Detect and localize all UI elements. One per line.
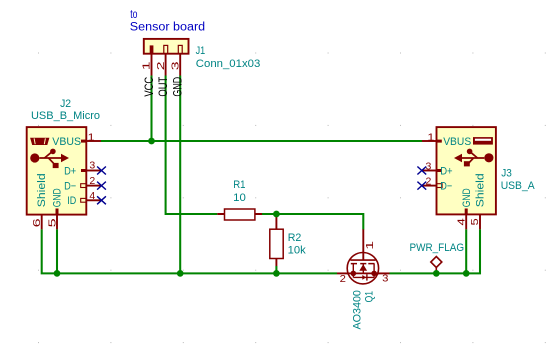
svg-text:10: 10 [233,192,246,204]
J3 pin 4 GND [455,188,472,229]
J2 USB trident icon [30,149,69,169]
svg-text:1: 1 [141,61,153,70]
wire bottom rail right from Q1.3 to J3.5 [390,229,481,273]
resistor R1 [217,209,262,220]
svg-text:2: 2 [155,61,167,70]
J2 USB plug icon [30,138,49,145]
svg-text:2: 2 [426,176,432,188]
no-connect X on J3 D- [417,182,426,190]
J2 pin 6 Shield [31,173,48,229]
svg-text:D−: D− [64,181,76,193]
svg-text:1: 1 [427,131,434,143]
text note: to Sensor board [130,9,205,34]
svg-text:R2: R2 [288,232,302,244]
resistor R2 [270,215,283,266]
svg-text:GND: GND [173,77,185,97]
svg-text:Q1: Q1 [364,291,376,302]
svg-text:VCC: VCC [144,77,156,97]
wire R1 right to Q1 gate [262,214,363,230]
Q1 pin 1 gate [363,229,376,260]
svg-text:2: 2 [89,175,95,187]
svg-text:AO3400: AO3400 [351,290,363,329]
junction at J2.5/rail [54,270,61,277]
J2 pin 5 GND [46,188,63,229]
J1 reference and value labels [196,45,261,70]
wire from J3.4 to bottom rail [465,229,467,273]
J2 pin 2 D- [64,175,101,193]
svg-text:Shield: Shield [475,173,487,207]
wire bottom rail left from J2.6 to Q1.2 [42,229,337,273]
wire GND from J1.3 to bottom rail [179,76,181,274]
connector J1 body [144,39,189,54]
svg-text:3: 3 [169,61,181,70]
J3 pin 5 Shield [469,173,486,229]
J3 USB socket icon [473,137,493,145]
connector J3 body [437,127,496,215]
J2 pin 3 D+ [64,159,101,177]
svg-text:Conn_01x03: Conn_01x03 [196,58,260,70]
svg-text:4: 4 [455,218,467,225]
svg-text:3: 3 [89,159,95,171]
J1 pin 2 [155,54,167,76]
svg-text:VBUS: VBUS [52,136,81,148]
J1 pin 3 [169,54,181,76]
svg-text:3: 3 [426,160,432,172]
svg-text:10k: 10k [288,244,307,256]
svg-text:R1: R1 [233,179,245,191]
svg-text:4: 4 [89,190,95,202]
J1 pin 1 [141,54,153,76]
svg-text:USB_B_Micro: USB_B_Micro [31,110,100,122]
J3 pin 3 D+ [422,160,453,177]
svg-text:D−: D− [440,181,452,193]
J2 pin 1 VBUS [52,131,101,148]
svg-text:OUT: OUT [158,77,170,97]
Q1 pin 2 source [337,273,348,285]
wire R2 bottom to rail [275,266,277,273]
J3 reference and value labels [501,168,536,192]
junction at VCC/VBUS [148,138,155,145]
svg-text:Sensor board: Sensor board [130,22,205,34]
svg-text:Shield: Shield [36,173,48,207]
junction at PWR_FLAG/rail [433,270,440,277]
J3 USB trident icon [454,149,494,167]
svg-text:J1: J1 [196,45,206,57]
svg-text:GND: GND [52,188,64,207]
junction at J3.4/rail [463,270,470,277]
junction at GND/rail [177,270,184,277]
svg-text:1: 1 [88,131,95,143]
svg-text:J2: J2 [60,98,71,110]
svg-text:5: 5 [46,218,58,227]
J2 reference and value labels [31,98,100,122]
svg-text:ID: ID [67,195,76,207]
junction at R1/R2 [273,211,280,218]
svg-text:VBUS: VBUS [443,136,471,148]
svg-text:2: 2 [340,273,346,285]
no-connect X on J2 D- [97,182,106,190]
Q1 pin 3 drain [378,273,390,285]
R2 reference and value labels [288,232,307,256]
svg-text:6: 6 [31,218,43,227]
svg-text:5: 5 [469,218,481,225]
no-connect X on J3 D+ [417,167,426,175]
connector J2 body [27,127,87,215]
svg-text:GND: GND [461,188,473,207]
wire from J2.5 to bottom rail [56,229,58,273]
transistor Q1 body [347,253,379,284]
J3 pin 2 D- [422,176,452,193]
svg-text:D+: D+ [440,165,452,177]
svg-text:J3: J3 [501,168,512,180]
Q1 reference and value labels [351,290,375,329]
no-connect X on J2 D+ [97,167,106,175]
J3 pin 1 VBUS [422,131,471,148]
wire VBUS horizontal J2.1 to J3.1 [101,140,422,142]
svg-text:3: 3 [382,273,388,285]
svg-text:1: 1 [364,241,376,250]
R1 reference and value labels [233,179,246,204]
svg-text:to: to [130,9,137,21]
no-connect X on J2 ID [97,196,106,204]
svg-text:D+: D+ [64,165,76,177]
J2 pin 4 ID [67,190,101,207]
svg-text:USB_A: USB_A [501,180,536,192]
junction at R2/rail [273,270,280,277]
wire VCC vertical from J1.1 [150,76,152,142]
power flag PWR_FLAG [410,242,465,274]
svg-text:PWR_FLAG: PWR_FLAG [410,242,465,254]
wire OUT from J1.2 to R1 left [166,76,218,215]
